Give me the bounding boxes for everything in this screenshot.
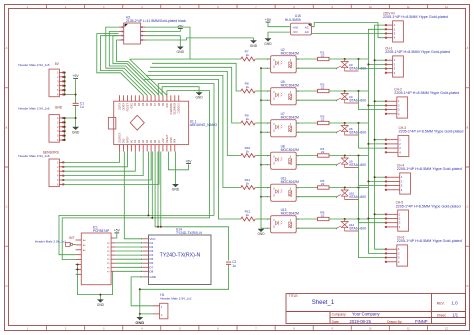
svg-text:Date:: Date: (332, 320, 340, 324)
node 5V pin (64, 89, 66, 91)
wire bus B tap CH-5 (368, 218, 386, 220)
connector H2 2135-2*4P labels (126, 15, 186, 23)
connector 220V IN labels (383, 11, 448, 19)
svg-text:GND: GND (264, 42, 272, 46)
svg-text:GND: GND (135, 320, 144, 325)
node 5V pin (64, 85, 66, 87)
triac U3 BTA16-600 (337, 59, 366, 71)
triac U6 BTA16-600 (337, 123, 366, 135)
wire U11 pin6 to R5 (296, 187, 317, 189)
svg-text:1.0: 1.0 (452, 301, 459, 306)
IC U IC1 body (81, 233, 111, 285)
title block frame (286, 294, 466, 324)
wire H2 net 5 to U1 (113, 36, 159, 96)
wire HLK AC1 to 220V pin4 (312, 23, 386, 38)
connector 5V header labels (18, 62, 59, 67)
wire U1 to row5 (146, 75, 241, 187)
wire H2 net 2 to U1 (100, 36, 147, 96)
connector CH-5 body (398, 210, 409, 231)
resistor R7 1k (241, 49, 255, 61)
connector 5V header pins 1-6 (57, 71, 64, 97)
wire bus A tap CH-1 (375, 59, 386, 61)
svg-text:3V3: 3V3 (122, 138, 125, 143)
node junction (260, 196, 262, 198)
wire R4 to bus (329, 155, 368, 157)
wire U7 pin4 to gate (296, 132, 336, 133)
connector CH-4 body (400, 173, 411, 194)
connector 5V header body (49, 69, 59, 97)
connector 220V IN pins (385, 23, 396, 40)
svg-text:AC: AC (305, 30, 309, 34)
wire H2 net 1 to U1 (97, 34, 143, 96)
node GND pin (64, 117, 66, 119)
connector CH-1 body (393, 56, 404, 77)
wire U6 to CH-3 (359, 123, 386, 148)
connector INT Header Male 2.54_1x1 (35, 236, 75, 246)
svg-text:2205-1*4P H=8.5MM Ytype Gold-p: 2205-1*4P H=8.5MM Ytype Gold-plated (397, 167, 462, 171)
wire U5 pin4 to gate (296, 100, 336, 101)
connector H2 body (124, 23, 141, 44)
resistor R12 1k (241, 209, 255, 221)
IC U IC1 PCF8574P labels (93, 226, 110, 234)
svg-text:TY24D-TX(RX)-N: TY24D-TX(RX)-N (176, 231, 202, 235)
connector SENSORS header pins 1-6 (57, 160, 64, 186)
wire IC1 VCC (115, 234, 116, 238)
resistor R11 1k (241, 178, 255, 190)
node junction (77, 268, 79, 270)
svg-text:BTA16-600: BTA16-600 (350, 227, 367, 231)
connector H2 pins 2,4,6,8 (141, 25, 146, 42)
wire U11 pin4 to gate (296, 197, 336, 198)
node junction (77, 264, 79, 266)
wire bus A tap CH-3 (375, 139, 386, 141)
wire SENSORS 2 to U1 (64, 152, 128, 167)
node junction (358, 122, 360, 124)
wire A4 drop to SDA (147, 152, 149, 216)
wire A5 drop to SCL (151, 152, 153, 218)
connector GND header labels (18, 105, 63, 110)
opto-isolator U11 MOC3042M (267, 177, 299, 202)
resistor R5 22 (318, 179, 329, 189)
connector CH-2 labels (394, 88, 459, 96)
svg-text:22: 22 (321, 85, 325, 89)
node junction (358, 218, 360, 220)
wire U11 pin2 to gnd bus (261, 196, 271, 198)
resistor R4 22 (318, 147, 329, 157)
svg-text:BTA16-600: BTA16-600 (350, 131, 367, 135)
svg-text:MOC3042M: MOC3042M (281, 212, 299, 216)
svg-text:22: 22 (321, 150, 325, 154)
capacitor C1 (73, 102, 85, 110)
connector H2 pins 1,3,5,7 (119, 25, 124, 42)
svg-text:2205-1*4P H=8.5MM Ytype Gold-p: 2205-1*4P H=8.5MM Ytype Gold-plated (383, 15, 448, 19)
node 5V pin (64, 94, 66, 96)
wire U13 pin6 to R6 (296, 218, 317, 220)
svg-text:Company:: Company: (332, 313, 347, 317)
connector CH-4 pins (385, 175, 403, 192)
resistor R10 1k (241, 146, 255, 158)
node junction (344, 155, 346, 157)
node junction (367, 180, 369, 182)
connector CH-6 body (397, 245, 408, 266)
svg-text:1k: 1k (246, 149, 250, 153)
node GND pin (64, 121, 66, 123)
svg-text:D12/MISO: D12/MISO (174, 103, 177, 115)
wire R8 to U5 (255, 90, 270, 92)
resistor R6 22 (318, 210, 329, 220)
svg-text:D10: D10 (166, 102, 169, 107)
svg-text:MOC3042M: MOC3042M (281, 52, 299, 56)
svg-text:2019-08-25: 2019-08-25 (350, 319, 372, 324)
power +5V at HLK (265, 18, 272, 22)
node junction (260, 67, 262, 69)
connector CH-5 pins (385, 212, 401, 229)
wire U8 pin2 to gnd bus (261, 164, 271, 166)
svg-text:+5V: +5V (114, 229, 121, 233)
IC U IC1 left pins (76, 239, 87, 274)
svg-text:GND: GND (55, 105, 63, 109)
ground at HLK (264, 38, 272, 46)
connector GND header pins 1-6 (57, 116, 64, 142)
svg-text:D8: D8 (150, 269, 154, 273)
connector CH-2 pins (385, 99, 400, 116)
node junction (367, 218, 369, 220)
connector SENSORS header labels (18, 150, 59, 157)
node junction (374, 100, 376, 102)
svg-text:1k: 1k (246, 213, 250, 217)
wire U8 pin4 to gate (296, 165, 336, 166)
wire SENSORS 6 to U1 (64, 152, 160, 185)
wire U1 to C2 bus (155, 152, 229, 261)
wire HLK +VO to +5V (268, 23, 290, 27)
IC U IC1 right pins (107, 238, 115, 273)
node junction (151, 217, 153, 219)
svg-text:1k: 1k (246, 53, 250, 57)
svg-text:BTA16-600: BTA16-600 (350, 195, 367, 199)
node junction (358, 90, 360, 92)
svg-text:D1/TX: D1/TX (118, 103, 121, 110)
module U15 HLK-5M05 (285, 14, 312, 35)
svg-text:RESET: RESET (166, 134, 169, 143)
wire U1 to U14 VCC (124, 152, 143, 239)
power +5V at IC1 (114, 229, 121, 233)
svg-text:D13/SCK: D13/SCK (178, 103, 181, 114)
wire U1 to row3 (150, 67, 241, 123)
wire bus A tap CH-5 (375, 213, 386, 215)
node 5V junction (75, 94, 77, 96)
wire row1 to R7 (130, 58, 241, 60)
wire U7 pin6 to R3 (296, 122, 317, 124)
ground bottom center (135, 317, 144, 325)
svg-text:GND: GND (172, 188, 180, 192)
connector CH-3 body (398, 135, 409, 156)
svg-text:Your Company: Your Company (352, 312, 380, 317)
op-amp U1 bottom pin labels (118, 132, 176, 143)
node junction (358, 155, 360, 157)
wire U12 to CH-6 (359, 219, 386, 258)
svg-text:GND: GND (257, 232, 265, 236)
ground mid top (250, 40, 258, 48)
node 5V pin (64, 72, 66, 74)
node junction (374, 213, 376, 215)
svg-text:TITLE:: TITLE: (289, 294, 299, 298)
wire U1 GND top net (162, 87, 199, 96)
wire U7 pin2 to gnd bus (261, 131, 271, 133)
svg-text:D13/SCK: D13/SCK (118, 132, 121, 143)
svg-text:TY24D-TX(RX)-N: TY24D-TX(RX)-N (160, 253, 201, 259)
connector CH-3 pins (385, 138, 401, 155)
svg-text:+VO: +VO (292, 25, 299, 29)
wire +5V stem to C1 (75, 79, 77, 103)
wire R12 to U13 (255, 218, 270, 220)
wire INT to IC1 (73, 243, 76, 245)
wire U2 pin6 to R1 (296, 58, 317, 60)
svg-text:GND: GND (177, 50, 185, 54)
wire diag row1 (130, 59, 167, 95)
svg-text:C: C (467, 206, 469, 209)
module U14 body (149, 235, 212, 285)
wire SENSORS 3 to U1 (64, 152, 136, 172)
wire U1 to row4 (148, 71, 241, 155)
wire gnd tie2 (76, 268, 78, 270)
svg-text:Header Male 2.54_1x2: Header Male 2.54_1x2 (160, 297, 192, 301)
power +5V near U1 (185, 159, 192, 163)
wire U1 +5V (168, 152, 188, 170)
triac U10 BTA16-600 (337, 188, 366, 200)
op-amp U1 ARDUINO_NANO body (108, 101, 188, 144)
wire drop x158 (157, 152, 159, 227)
wire R7 to U2 (255, 58, 270, 60)
svg-text:Header Male 2.54_1x6: Header Male 2.54_1x6 (18, 107, 50, 111)
node junction (367, 104, 369, 106)
svg-text:D: D (6, 285, 8, 288)
svg-text:MOC3042M: MOC3042M (281, 148, 299, 152)
node junction (99, 294, 101, 296)
svg-text:C: C (6, 206, 8, 209)
svg-text:Header Male 2.54_1x6: Header Male 2.54_1x6 (18, 63, 50, 67)
title block texts (289, 294, 459, 324)
svg-text:Sheet:: Sheet: (437, 313, 447, 317)
wire IC1 P7 to U14 (115, 270, 142, 272)
wire SENSORS 1 to U1 (64, 152, 120, 163)
svg-text:GND: GND (196, 96, 204, 100)
node junction (260, 131, 262, 133)
opto-isolator U13 MOC3042M (267, 208, 299, 233)
svg-text:MOC3042M: MOC3042M (281, 84, 299, 88)
wire R2 to bus (329, 90, 368, 92)
wire U14 GND to H1 (131, 277, 152, 306)
resistor R9 1k (241, 113, 255, 125)
svg-text:1k: 1k (246, 117, 250, 121)
svg-text:D: D (467, 285, 469, 288)
wire bus B tap CH-4 (368, 180, 386, 182)
wire U4 to CH-2 (359, 91, 386, 110)
node GND junction (75, 117, 77, 119)
svg-text:GND: GND (250, 44, 258, 48)
wire R11 to U11 (255, 187, 270, 189)
svg-text:MOC3042M: MOC3042M (281, 180, 299, 184)
wire drop x160 (160, 152, 162, 227)
wire H2 pin4 to +5V (146, 29, 181, 31)
wire C2 to H1 pin2 (140, 265, 229, 314)
svg-text:GND: GND (170, 137, 173, 143)
wire gnd tie1 (76, 264, 78, 266)
svg-text:2205-1*4P H=8.5MM Ytype Gold-p: 2205-1*4P H=8.5MM Ytype Gold-plated (394, 91, 459, 95)
svg-text:22: 22 (321, 117, 325, 121)
connector H1 Header Male 2.54_1x2 (152, 293, 191, 319)
svg-text:MOC3042M: MOC3042M (281, 116, 299, 120)
node 5V pin (64, 76, 66, 78)
connector CH-5 labels (396, 201, 461, 209)
wire IC1 P2 to U14 (115, 250, 142, 252)
node junction (358, 58, 360, 60)
connector CH-4 labels (397, 164, 462, 172)
node junction (367, 63, 369, 65)
svg-text:GND: GND (72, 130, 80, 134)
triac U9 BTA16-600 (337, 156, 366, 168)
svg-text:FINNP: FINNP (415, 319, 428, 324)
svg-text:2205-1*4P H=8.5MM Ytype Gold-p: 2205-1*4P H=8.5MM Ytype Gold-plated (399, 130, 464, 134)
wire U13 pin2 to gnd bus (261, 227, 271, 229)
wire U2 pin2 to gnd bus (261, 67, 271, 69)
wire U10 to CH-5 (359, 188, 386, 223)
svg-text:2205-1*4P H=8.5MM Ytype Gold-p: 2205-1*4P H=8.5MM Ytype Gold-plated (396, 204, 461, 208)
svg-text:AREF: AREF (126, 136, 129, 143)
connector CH-2 body (397, 97, 408, 118)
wire H2 pin6 to GND (146, 36, 181, 47)
module U14 TY24D labels (176, 228, 202, 235)
wire SCL U1 to IC1 (62, 91, 209, 260)
node junction (147, 214, 149, 216)
svg-text:+5V: +5V (73, 74, 80, 78)
wire U1 GND stem (175, 152, 177, 185)
svg-text:Drawn By:: Drawn By: (387, 320, 402, 324)
node junction (260, 99, 262, 101)
connector CH-6 labels (397, 236, 462, 244)
svg-text:2205-1*4P H=8.5MM Ytype Gold-p: 2205-1*4P H=8.5MM Ytype Gold-plated (385, 50, 450, 54)
svg-text:22: 22 (321, 213, 325, 217)
svg-text:1k: 1k (246, 85, 250, 89)
wire bus A tap CH-4 (375, 176, 386, 178)
svg-text:D0/RX: D0/RX (122, 103, 125, 111)
wire U13 pin4 to gate (296, 228, 336, 229)
wire U2 pin4 to gate (296, 68, 336, 69)
ground opto bus (257, 229, 265, 236)
node junction (157, 226, 159, 228)
node 5V pin (64, 80, 66, 82)
op-amp U1 top pins (120, 95, 179, 101)
svg-text:22: 22 (321, 53, 325, 57)
connector 220V IN body (393, 21, 404, 42)
node junction (374, 139, 376, 141)
resistor R1 22 (318, 50, 329, 60)
wire bottom GND stem (139, 314, 141, 317)
wire IC1 P5 to U14 (115, 262, 142, 264)
svg-text:+5V: +5V (162, 138, 165, 143)
wire GND link (65, 117, 76, 119)
wire U8 pin6 to R4 (296, 155, 317, 157)
wire HLK AC2 to 220V pin3 (312, 33, 386, 35)
wire U9 to CH-4 (359, 156, 386, 186)
ground left (72, 127, 80, 135)
power +5V left (73, 74, 80, 78)
wire R5 to bus (329, 187, 368, 189)
connector CH-6 pins (385, 247, 400, 264)
node junction (344, 187, 346, 189)
svg-text:+5V: +5V (265, 18, 272, 22)
wire opto gnd bus (260, 68, 262, 228)
svg-text:PCF8574P: PCF8574P (93, 229, 110, 233)
node junction (344, 122, 346, 124)
svg-text:AC: AC (305, 25, 309, 29)
node junction (139, 288, 141, 290)
node junction (374, 176, 376, 178)
svg-text:-VO: -VO (292, 30, 298, 34)
svg-text:Header Male 2.54_1x1: Header Male 2.54_1x1 (35, 240, 67, 244)
svg-text:Header Male 2.54_1x6: Header Male 2.54_1x6 (18, 154, 50, 158)
wire bus B tap CH-1 (368, 63, 386, 65)
node GND pin (64, 126, 66, 128)
opto-isolator U5 MOC3042M (267, 80, 299, 105)
node GND pin (64, 139, 66, 141)
wire R3 to bus (329, 122, 368, 124)
svg-text:VIN: VIN (174, 139, 177, 143)
op-amp U1 top pin labels (118, 102, 180, 114)
wire SENSORS 5 to U1 (64, 152, 152, 181)
svg-text:2205-1*4P H=8.5MM Ytype Gold-p: 2205-1*4P H=8.5MM Ytype Gold-plated (397, 239, 462, 243)
svg-text:GND: GND (97, 303, 105, 307)
svg-text:1k: 1k (246, 181, 250, 185)
node junction (344, 218, 346, 220)
svg-text:1u: 1u (80, 105, 84, 109)
wire bus B (368, 29, 386, 253)
wire IC1 P0 to U14 (115, 242, 142, 244)
node GND pin (64, 130, 66, 132)
ground near H2 (177, 47, 185, 55)
wire C1 to GND (75, 106, 77, 127)
wire GND stem mid (253, 38, 255, 40)
wire IC1 P1 to U14 (115, 246, 142, 248)
opto-isolator U2 MOC3042M (267, 48, 299, 73)
wire bus A tap CH-2 (375, 100, 386, 102)
resistor R3 22 (318, 114, 329, 124)
op-amp U1 label (190, 119, 218, 127)
wire H2 pin2 drop (146, 27, 191, 59)
svg-text:22: 22 (321, 182, 325, 186)
ground mid arduino (196, 92, 204, 99)
wire SENSORS 4 to U1 (64, 152, 144, 176)
connector CH-1 labels (385, 47, 450, 55)
node junction (344, 90, 346, 92)
connector GND header body (49, 115, 59, 143)
wire bus B tap CH-3 (368, 143, 386, 145)
svg-text:INT: INT (69, 236, 74, 240)
svg-text:2135-2*4P L=11 8MM/Gold-plated: 2135-2*4P L=11 8MM/Gold-plated black (126, 19, 186, 23)
opto-isolator U8 MOC3042M (267, 145, 299, 170)
wire R9 to U7 (255, 122, 270, 124)
wire H2 net 6 to U1 (117, 40, 163, 95)
opto-isolator U7 MOC3042M (267, 112, 299, 137)
svg-text:GND: GND (150, 275, 156, 279)
wire U1 to row6 (144, 79, 241, 219)
node junction (160, 226, 162, 228)
wire bus B tap CH-2 (368, 104, 386, 106)
wire R10 to U8 (255, 155, 270, 157)
svg-text:GND: GND (130, 103, 133, 109)
svg-text:HLK-5M05: HLK-5M05 (285, 18, 301, 22)
power +5V near H2 (177, 24, 184, 28)
wire U3 to CH-1 (359, 59, 386, 69)
